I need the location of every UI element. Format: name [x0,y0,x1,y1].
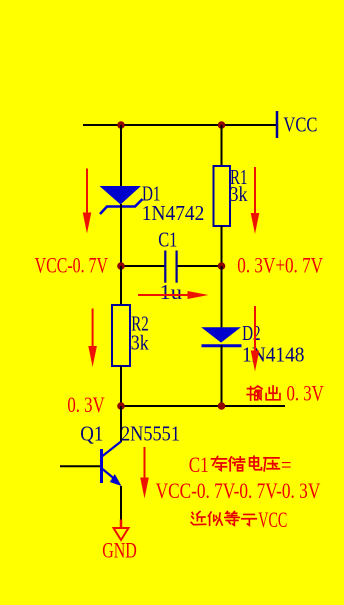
diode D1 zener symbol [100,186,143,214]
current arrow at Q1 [140,447,149,499]
svg-text:VCC-0. 7V: VCC-0. 7V [35,253,108,278]
svg-text:Q1: Q1 [80,422,103,446]
annotation char 近 [191,511,206,524]
svg-text:GND: GND [102,538,137,563]
wire R2 to bottom rail [120,366,122,406]
annotation char 压 [264,458,279,471]
svg-text:D2: D2 [242,321,261,345]
svg-text:C1: C1 [189,452,209,477]
svg-text:VCC-0. 7V-0. 7V-0. 3V: VCC-0. 7V-0. 7V-0. 3V [156,478,321,503]
charge current arrow 1u [138,291,209,299]
wire D1 cathode to C1 rail [120,204,122,266]
capacitor C1 [165,251,176,283]
wire C1 rail left [121,265,165,267]
annotation char 电 [250,456,262,470]
junction top right [218,121,226,129]
current arrow at D2 [251,306,260,372]
svg-text:1u: 1u [160,280,183,304]
svg-text:1N4148: 1N4148 [242,343,305,367]
wire bottom rail to Q1 collector [120,406,122,442]
wire Q1 emitter to ground [120,486,122,520]
ground symbol [114,520,129,541]
output label char 出 [266,386,280,400]
junction bottom right [218,402,226,410]
power VCC terminal bar [276,111,279,138]
resistor R2 [112,305,130,366]
annotation char 等 [225,511,240,525]
wire top rail [83,124,276,126]
wire C1 rail right [178,265,222,267]
wire D2 cathode to bottom rail [221,345,223,406]
svg-text:C1: C1 [158,228,177,252]
resistor R1 [214,166,231,226]
svg-text:2N5551: 2N5551 [121,422,180,446]
svg-text:0. 3V: 0. 3V [67,392,104,417]
wire R1 to C1 rail [221,226,223,266]
junction bottom left [117,402,125,410]
svg-text:=: = [281,452,292,477]
wire C1 rail to D2 anode [221,266,223,328]
svg-text:0. 3V+0. 7V: 0. 3V+0. 7V [237,253,323,278]
current arrow at R2 [88,309,97,368]
annotation char 似 [208,512,222,525]
svg-text:3k: 3k [131,331,149,355]
junction C1 rail right [218,262,226,270]
transistor Q1 [102,442,122,487]
wire bottom rail [121,405,285,407]
junction top left [117,121,125,129]
wire rail to D1 anode [120,125,122,187]
svg-text:1N4742: 1N4742 [142,201,205,225]
annotation char 于 [242,514,257,525]
annotation char 存 [212,457,227,471]
diode D2 [201,327,241,346]
svg-text:VCC: VCC [283,113,317,137]
annotation char 储 [229,457,245,471]
svg-text:0. 3V: 0. 3V [287,381,324,406]
current arrow at R1 [251,167,260,234]
svg-text:VCC: VCC [258,507,287,532]
wire C1 rail to R2 [120,266,122,306]
output label char 输 [247,386,262,400]
wire Q1 base lead [60,465,100,467]
junction C1 rail left [117,262,125,270]
current arrow at D1 [83,169,92,234]
wire rail to R1 [221,125,223,167]
svg-text:3k: 3k [230,182,248,206]
